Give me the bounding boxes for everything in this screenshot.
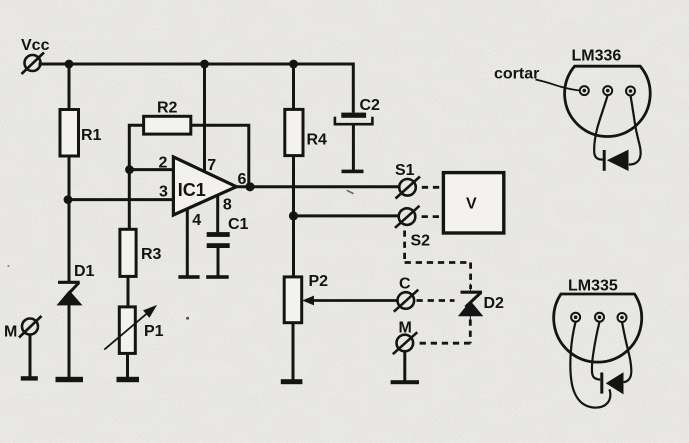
svg-text:R4: R4 (307, 132, 328, 149)
svg-text:M: M (4, 324, 17, 341)
svg-text:Vcc: Vcc (21, 37, 50, 54)
svg-text:6: 6 (238, 171, 247, 188)
svg-text:V: V (466, 196, 477, 213)
svg-text:R1: R1 (81, 127, 102, 144)
svg-text:S2: S2 (411, 233, 431, 250)
svg-text:4: 4 (192, 212, 201, 229)
svg-text:D2: D2 (484, 295, 505, 312)
svg-text:3: 3 (159, 184, 168, 201)
svg-text:P2: P2 (309, 273, 329, 290)
svg-text:C2: C2 (360, 97, 381, 114)
svg-text:P1: P1 (144, 323, 164, 340)
svg-text:D1: D1 (74, 263, 95, 280)
svg-text:M: M (399, 320, 412, 337)
svg-text:2: 2 (159, 154, 168, 171)
svg-text:S1: S1 (395, 162, 415, 179)
svg-text:R3: R3 (141, 246, 162, 263)
svg-text:R2: R2 (157, 100, 178, 117)
svg-text:8: 8 (223, 196, 232, 213)
svg-text:LM335: LM335 (568, 278, 618, 295)
svg-text:LM336: LM336 (572, 47, 622, 64)
svg-text:IC1: IC1 (178, 180, 206, 200)
svg-text:7: 7 (207, 157, 216, 174)
svg-text:cortar: cortar (494, 65, 539, 82)
svg-text:C1: C1 (228, 216, 249, 233)
svg-text:C: C (399, 276, 411, 293)
